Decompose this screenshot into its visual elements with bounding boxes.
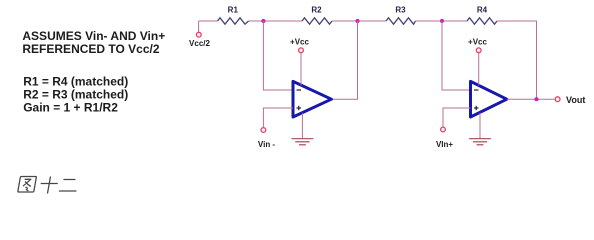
svg-text:R3: R3 xyxy=(395,5,406,14)
terminal +Vcc (U2) xyxy=(476,48,481,53)
caption 图十二 (figure 12, drawn strokes) xyxy=(18,177,79,194)
wire: +Vcc to U1 power pin xyxy=(300,53,302,86)
svg-text:Vin -: Vin - xyxy=(258,140,276,149)
terminal Vout xyxy=(555,97,560,102)
wire: node A down to op-amp U1 inverting input xyxy=(263,21,293,90)
terminal +Vcc (U1) xyxy=(299,48,304,53)
op-amp U2 xyxy=(471,81,507,117)
node A junction dot (R1-R2) xyxy=(261,19,265,23)
svg-text:+Vcc: +Vcc xyxy=(468,37,487,46)
wire: op-amp U1 output feedback up to node B xyxy=(331,21,357,99)
node C junction dot (R3-R4) xyxy=(440,19,444,23)
svg-text:Vout: Vout xyxy=(566,95,585,105)
node: output junction dot xyxy=(534,97,538,101)
svg-text:Vcc/2: Vcc/2 xyxy=(189,39,210,48)
wire: rail R2 to R3 xyxy=(332,20,386,22)
svg-text:Gain = 1 + R1/R2: Gain = 1 + R1/R2 xyxy=(23,100,118,114)
wire: rail R4 to right corner xyxy=(497,21,537,99)
wire: top rail left segment xyxy=(199,20,218,22)
wire: Vin+ to U2 non-inverting input xyxy=(443,108,471,127)
terminal Vcc/2 xyxy=(196,32,201,37)
wire: U1 ground pin stem xyxy=(301,113,303,139)
ground (U1) xyxy=(292,139,314,145)
svg-text:R1: R1 xyxy=(228,5,239,14)
terminal Vin- xyxy=(261,128,266,133)
svg-text:R1 = R4 (matched): R1 = R4 (matched) xyxy=(23,75,128,89)
resistor R2 xyxy=(302,18,332,24)
node B junction dot (R2-R3) xyxy=(355,19,359,23)
wire: rail R1 to R2 xyxy=(249,20,303,22)
svg-text:+Vcc: +Vcc xyxy=(290,37,309,46)
svg-text:VIn+: VIn+ xyxy=(436,140,453,149)
ground (U2) xyxy=(469,139,491,145)
wire: node C down to op-amp U2 inverting input xyxy=(442,21,471,90)
wire: U2 ground pin stem xyxy=(479,113,481,139)
wire: U2 output to Vout xyxy=(507,98,555,100)
svg-text:R4: R4 xyxy=(477,5,488,14)
op-amp U1 xyxy=(293,81,331,117)
resistor R1 xyxy=(218,18,249,24)
wire: rail R3 to R4 xyxy=(416,20,468,22)
svg-text:REFERENCED TO Vcc/2: REFERENCED TO Vcc/2 xyxy=(22,42,159,56)
wire: Vcc/2 stub xyxy=(198,21,200,32)
wire: +Vcc to U2 power pin xyxy=(478,53,480,86)
svg-text:R2: R2 xyxy=(311,5,322,14)
wire: Vin- to U1 non-inverting input xyxy=(263,108,293,127)
resistor R3 xyxy=(386,18,416,24)
resistor R4 xyxy=(467,18,497,24)
terminal Vin+ xyxy=(441,127,446,132)
